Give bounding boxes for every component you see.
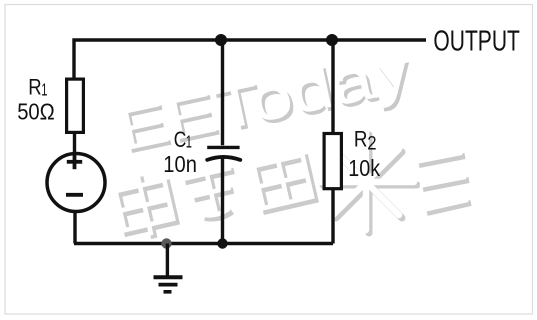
watermark (embossed) [112,37,471,243]
svg-text:OUTPUT: OUTPUT [433,25,520,57]
svg-text:1: 1 [41,80,47,100]
bottom wire [74,242,333,245]
top wire [74,40,426,78]
plus sign [67,154,82,169]
voltage source V1 [47,154,105,212]
svg-text:10k: 10k [348,155,380,181]
svg-text:1: 1 [186,132,192,152]
capacitor C1 bottom plate [207,157,240,160]
capacitor C1 top plate [207,146,239,149]
ground [154,244,183,292]
resistor R2 [324,134,341,189]
right branch wire bottom [331,190,334,244]
label C1 [174,127,192,152]
right branch wire top [331,40,334,132]
label R2 [354,127,377,155]
svg-text:R: R [354,127,368,152]
middle branch wire bottom [221,159,224,244]
resistor R1 [67,79,84,132]
svg-text:C: C [174,127,187,152]
wire R1 bottom to source [73,133,76,152]
wire source bottom to bottom wire [73,211,76,244]
svg-text:50Ω: 50Ω [17,99,55,125]
svg-text:R: R [28,75,41,100]
junction dot top right [326,34,338,46]
junction dot capacitor bottom [217,238,227,248]
junction dot top left [215,34,227,46]
label R1 [28,75,47,100]
middle branch wire top [221,40,224,145]
svg-text:2: 2 [367,132,376,154]
minus sign [66,193,83,197]
svg-text:10n: 10n [163,151,197,177]
junction dot ground (gray) [161,238,171,248]
